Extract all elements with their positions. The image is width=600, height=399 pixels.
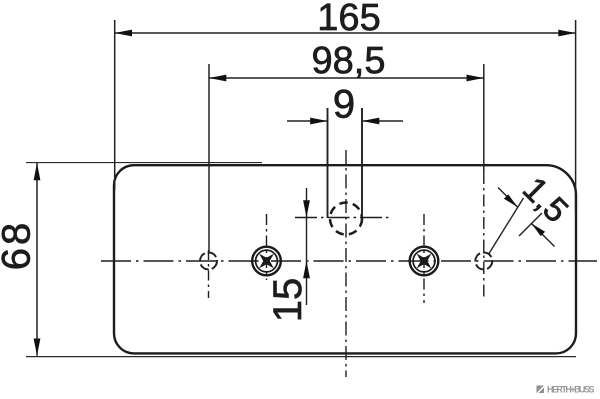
svg-text:15: 15: [266, 278, 310, 323]
svg-text:1,5: 1,5: [515, 170, 575, 230]
svg-text:98,5: 98,5: [312, 40, 386, 82]
svg-text:165: 165: [317, 0, 380, 39]
svg-text:HERTH+BUSS: HERTH+BUSS: [547, 385, 594, 395]
svg-text:9: 9: [333, 83, 355, 127]
svg-text:68: 68: [0, 220, 39, 271]
